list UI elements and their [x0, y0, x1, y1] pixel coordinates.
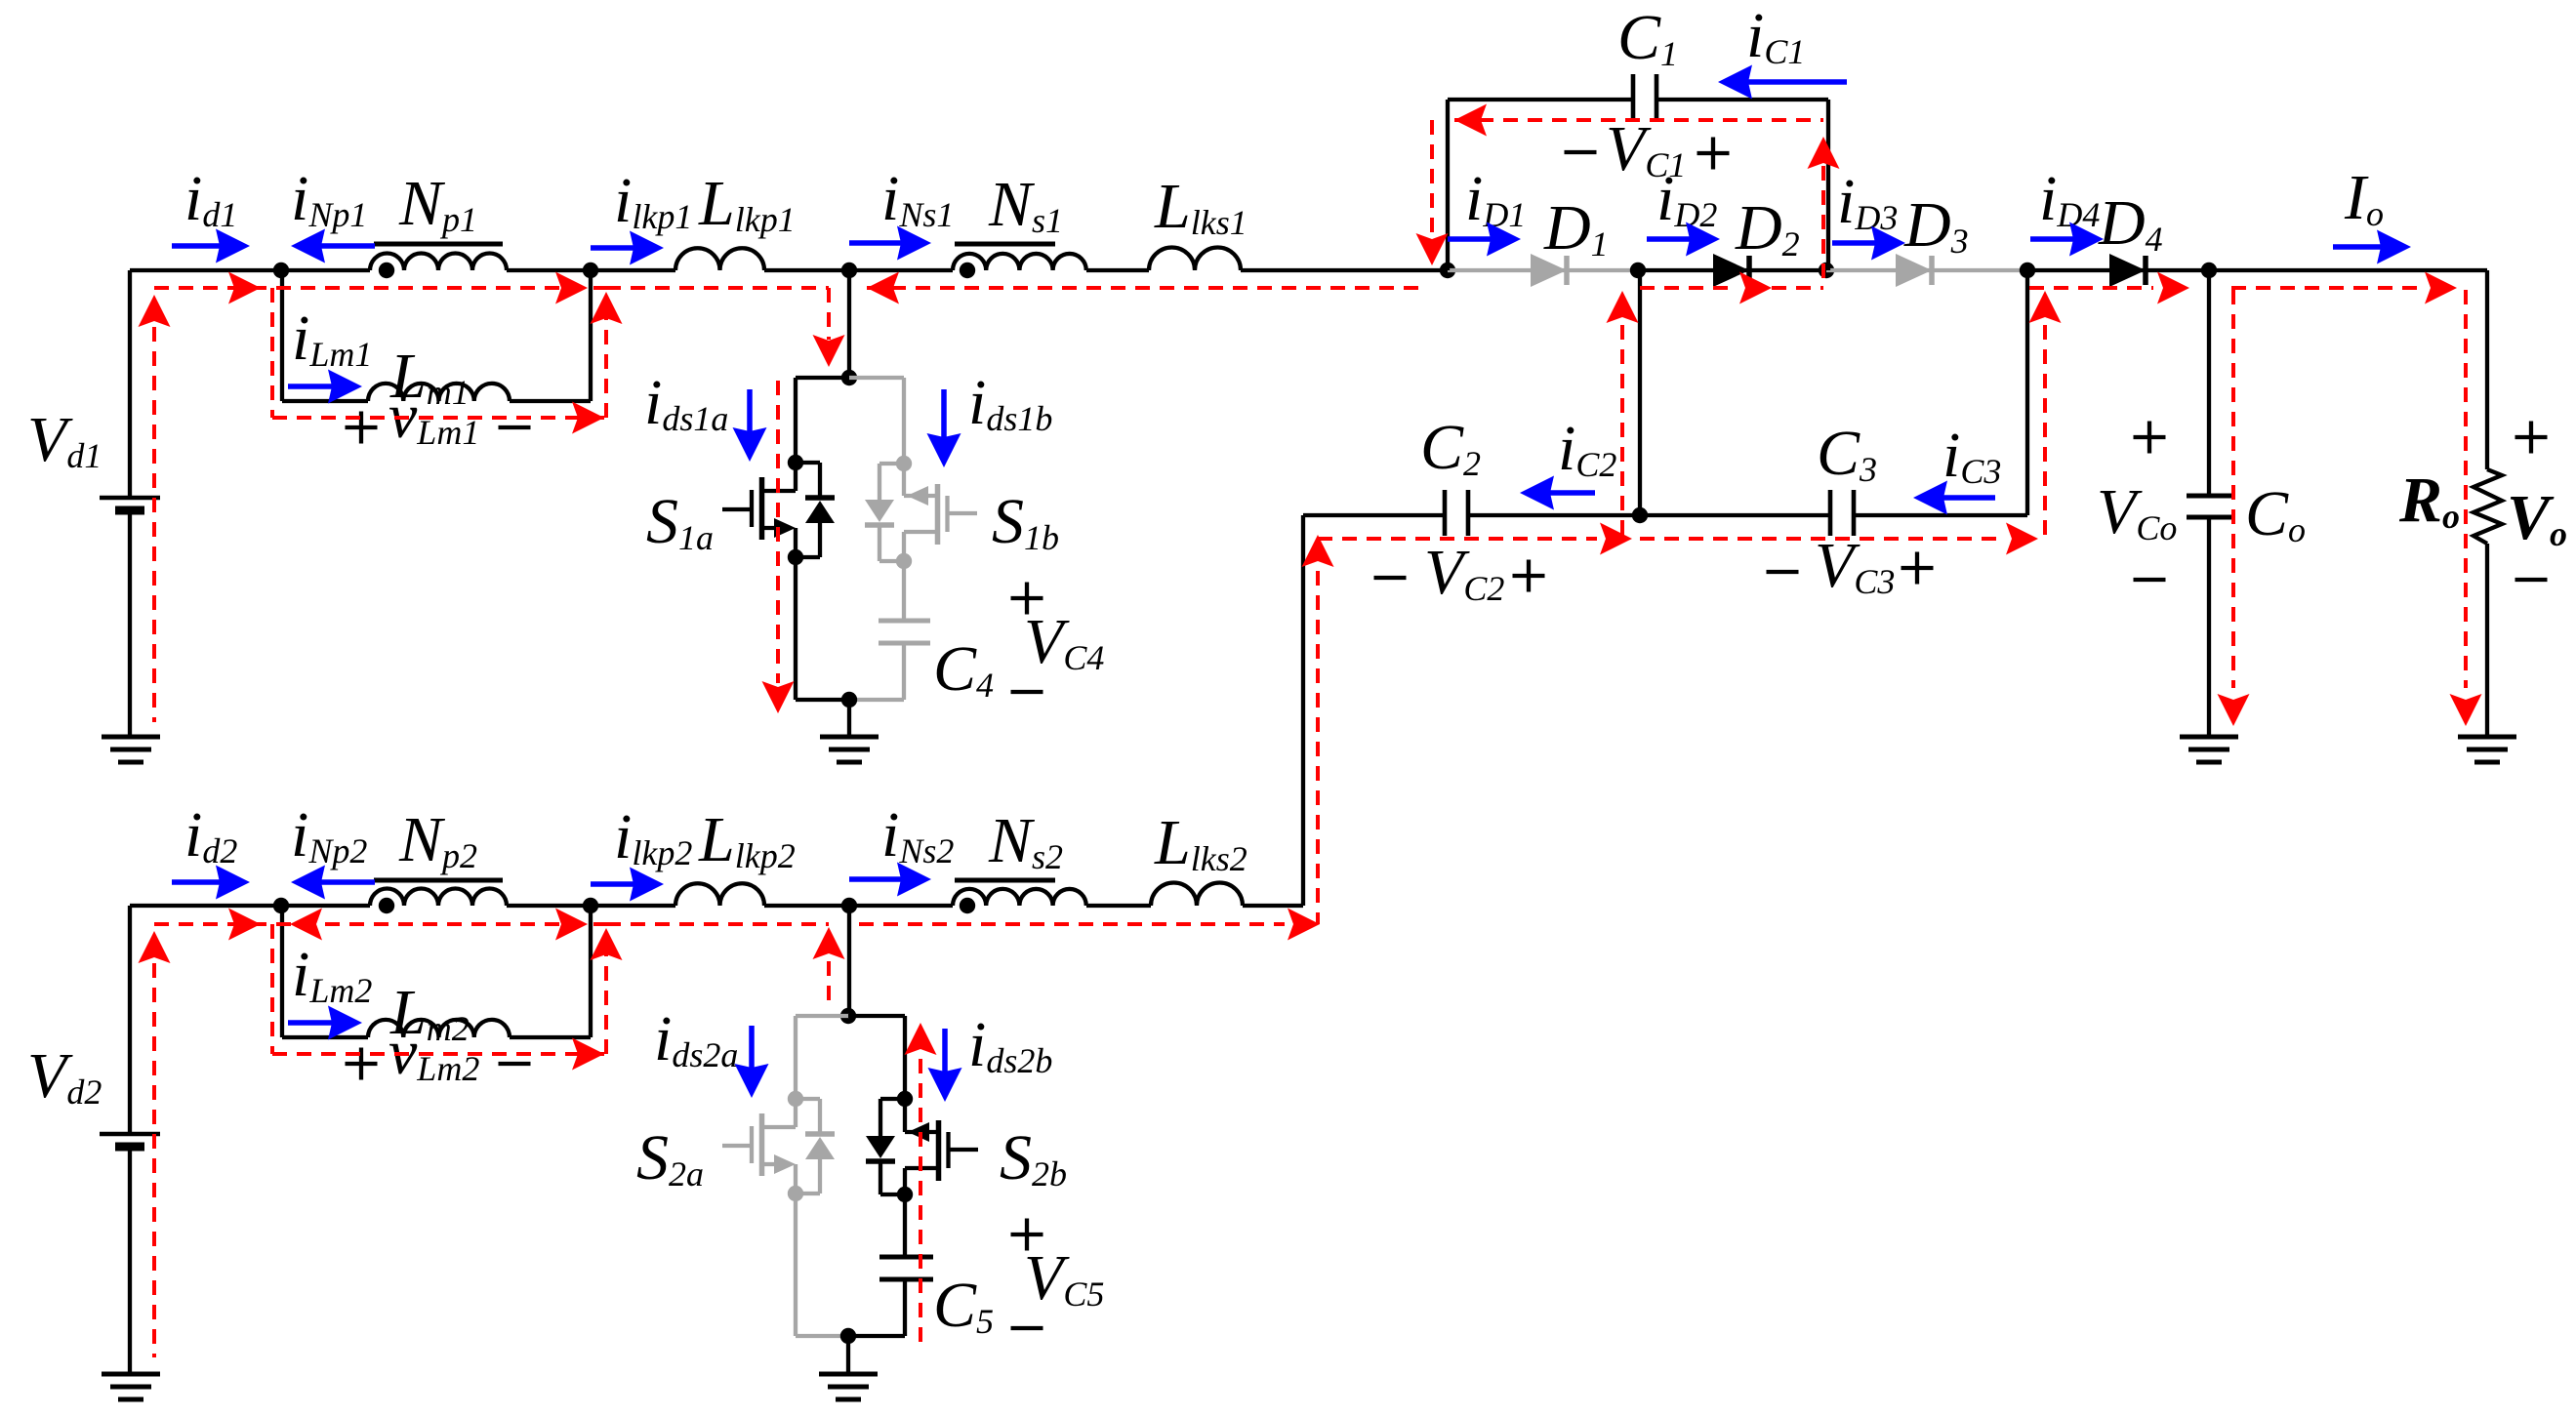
arrow ids1b: [927, 389, 961, 467]
label C2: [1420, 412, 1481, 483]
node C2 switch branch junction: [841, 898, 857, 913]
body diode S2a gray: [796, 1099, 835, 1193]
label -VC1+: [1565, 113, 1730, 184]
label Vo: [2507, 422, 2567, 581]
red path C1 top: [1454, 104, 1823, 137]
capacitor C2: [1445, 490, 1468, 536]
mosfet S1b gray: [904, 464, 977, 561]
label iD4: [2039, 163, 2100, 234]
arrow iC2: [1520, 476, 1595, 510]
capacitor Co branch: [2187, 270, 2231, 737]
red path C2 up: [1607, 291, 1639, 539]
wire to S2a drain gray: [796, 1016, 849, 1099]
red path Ro down: [2450, 290, 2482, 726]
wire node F to mid rail: [2025, 270, 2029, 515]
wire Ns2 to Llks2: [1086, 904, 1151, 908]
arrow iLm1: [288, 370, 362, 404]
node S1a source: [788, 549, 803, 565]
wire switch bottom gray: [849, 698, 904, 702]
wire node D to mid rail: [1638, 270, 1642, 515]
node S1b drain gray: [896, 456, 912, 471]
red path Co down: [2218, 290, 2250, 726]
red path D2 segment: [1640, 272, 1823, 304]
red path link vertical: [1302, 535, 1334, 924]
wire switch branch stem: [847, 270, 851, 378]
label +VC5: [1011, 1219, 1105, 1329]
voltage source Vd2: [100, 906, 160, 1374]
red path bottom rail left: [154, 909, 606, 941]
label -VC2+: [1374, 537, 1545, 608]
label D3: [1903, 189, 1969, 261]
ground switch2: [819, 1374, 878, 1399]
node switch bottom: [841, 692, 857, 708]
node S1a drain: [788, 455, 803, 470]
label ilkp2: [614, 801, 692, 872]
label id2: [184, 799, 237, 870]
wire gray D3 segment: [1826, 268, 2028, 272]
red path secondary return: [867, 272, 1425, 304]
transformer primary winding Np2: [370, 880, 507, 913]
red path output segment: [2231, 272, 2457, 304]
node input Vd1-Np1 junction: [273, 263, 289, 278]
arrow iNp2: [291, 866, 375, 900]
capacitor C1: [1633, 74, 1656, 122]
label ids1b: [968, 367, 1052, 438]
red path through S2b: [905, 1023, 937, 1347]
label Lm1: [389, 341, 470, 412]
mosfet S2b: [905, 1099, 978, 1194]
arrow ilkp1: [591, 231, 664, 265]
wire Llkp2 to Ns2: [764, 904, 953, 908]
label ids2a: [654, 1003, 738, 1074]
label iC3: [1942, 420, 2001, 491]
label +vLm2-: [346, 1017, 531, 1088]
arrow ids2a: [735, 1026, 769, 1098]
red path Vd1 up: [139, 295, 171, 722]
label +vLm1-: [346, 381, 531, 452]
arrow ilkp2: [591, 868, 664, 902]
red path S2b up to rail: [813, 927, 845, 1010]
transformer secondary winding Ns2: [953, 880, 1086, 913]
mosfet S1a: [722, 463, 796, 557]
red path mid rail left: [1318, 523, 1632, 555]
wire to S2b drain: [848, 1016, 905, 1099]
arrow ids1a: [733, 389, 767, 462]
label S2b: [1000, 1122, 1067, 1193]
body diode S1a: [796, 463, 835, 557]
leakage inductor Llkp2: [675, 883, 764, 906]
arrow iC3: [1913, 481, 1995, 515]
wire black D4 segment: [2028, 268, 2487, 272]
magnetizing inductor Lm2 loop: [282, 906, 591, 1037]
label iD1: [1465, 163, 1526, 234]
diode D4: [2109, 254, 2146, 287]
body diode S2b: [866, 1099, 905, 1194]
wire bottom rail left: [130, 904, 370, 908]
wire C1 loop: [1448, 100, 1828, 270]
diode D3: [1896, 254, 1932, 287]
capacitor C3: [1830, 490, 1854, 536]
node switch branch split: [841, 370, 857, 385]
label ilkp1: [614, 165, 692, 236]
label Llkp2: [698, 804, 796, 875]
wire Np1 to Llkp1: [507, 268, 675, 272]
label iNp2: [291, 799, 367, 870]
red path C1 left down: [1416, 120, 1449, 265]
arrow iD4: [2030, 223, 2104, 257]
label Ns1: [988, 169, 1063, 240]
label id1: [184, 163, 237, 234]
label Llks1: [1154, 171, 1247, 242]
label Vd2: [27, 1040, 102, 1112]
label -VC3+: [1767, 530, 1934, 601]
capacitor C4 gray: [879, 561, 930, 700]
node S1b source gray: [896, 553, 912, 569]
label VCo: [2097, 422, 2177, 581]
label iNs1: [881, 163, 954, 234]
node D2-C2 mid junction: [1632, 507, 1648, 523]
node S2b drain: [897, 1091, 913, 1107]
wire to ground sw1: [847, 700, 851, 737]
wire gray D1 segment: [1448, 268, 1638, 272]
arrow id1: [172, 229, 250, 263]
ground Vd2: [102, 1374, 160, 1399]
label C5: [933, 1270, 994, 1341]
label iD2: [1656, 163, 1717, 234]
node F D3-D4 junction: [2020, 263, 2035, 278]
label Ro: [2398, 465, 2460, 536]
node B2 junction: [583, 898, 598, 913]
mosfet S2a gray: [722, 1099, 796, 1193]
wire Np2 to Llkp2: [507, 904, 675, 908]
node C switch branch junction: [841, 263, 857, 278]
label iC2: [1558, 413, 1616, 484]
wire S1a source down: [796, 557, 849, 700]
red path mid segment 2: [606, 922, 829, 926]
label Vd1: [27, 404, 102, 475]
red path C1 right up: [1808, 137, 1840, 288]
label iLm2: [292, 939, 372, 1010]
wire top rail left segment: [130, 268, 370, 272]
node switch bottom 2: [840, 1328, 856, 1344]
wire black D2 segment: [1638, 268, 1826, 272]
label S2a: [636, 1122, 704, 1193]
node E D2-D3 junction: [1819, 263, 1834, 278]
diode D1: [1531, 254, 1567, 287]
arrow iNp1: [291, 229, 375, 263]
wire Llks1 to D1 node: [1241, 268, 1448, 272]
wire switch branch stem 2: [847, 906, 851, 1016]
label C3: [1817, 418, 1877, 489]
transformer primary winding Np1: [370, 244, 507, 278]
node switch branch split 2: [840, 1008, 856, 1024]
arrow iNs2: [849, 863, 931, 897]
wire Llks2 to link corner: [1243, 904, 1303, 908]
node S2a source gray: [788, 1186, 803, 1201]
label iD3: [1837, 166, 1898, 237]
label Lm2: [389, 977, 470, 1048]
label Co: [2245, 478, 2306, 549]
wire mid rail: [1303, 513, 2027, 517]
node D D1-D2 junction: [1630, 263, 1646, 278]
wire Ns1 to Llks1: [1086, 268, 1149, 272]
magnetizing inductor Lm1 loop: [282, 270, 591, 401]
node S2b source: [897, 1187, 913, 1202]
red path mid rail right: [1640, 523, 2038, 555]
red path Vd2 up: [139, 931, 171, 1357]
node B Np1-Lm1 right junction: [583, 263, 598, 278]
label ids1a: [644, 367, 728, 438]
red path secondary out: [859, 909, 1320, 941]
wire switch bottom 2: [848, 1334, 905, 1338]
node S2a drain gray: [788, 1091, 803, 1107]
label Ns2: [988, 805, 1063, 876]
red path D4 segment: [2029, 272, 2189, 304]
label Llkp1: [698, 168, 796, 239]
red path through S1a: [762, 381, 795, 713]
label Io: [2344, 162, 2384, 233]
body diode S1b gray: [865, 464, 904, 561]
wire long link vertical: [1301, 515, 1305, 906]
wire Ro to ground: [2485, 544, 2489, 737]
label D4: [2098, 187, 2163, 259]
label Np2: [398, 804, 477, 875]
voltage source Vd1: [100, 270, 160, 737]
wire output right corner: [2485, 270, 2489, 469]
arrow iNs1: [849, 226, 931, 261]
ground Co: [2180, 737, 2238, 762]
wire to ground sw2: [846, 1336, 850, 1374]
ground Ro: [2458, 737, 2516, 762]
label Llks2: [1154, 807, 1247, 878]
label D1: [1543, 192, 1609, 263]
label Np1: [398, 168, 477, 239]
arrow iD3: [1832, 226, 1905, 261]
leakage inductor Llks2: [1151, 883, 1243, 907]
label C1: [1617, 2, 1678, 73]
node I C1-loop left / D1 anode: [1440, 263, 1455, 278]
node G output junction: [2201, 263, 2217, 278]
wire Llkp1 to Ns1: [764, 268, 953, 272]
red path to switch: [606, 288, 845, 367]
resistor Ro: [2474, 469, 2502, 544]
leakage inductor Llkp1: [675, 248, 764, 270]
label D2: [1735, 192, 1800, 263]
arrow iD1: [1448, 223, 1521, 257]
red path C3 up: [2029, 291, 2062, 539]
arrow iC1: [1718, 65, 1847, 100]
label iLm1: [292, 303, 372, 374]
arrow iD2: [1647, 223, 1720, 257]
leakage inductor Llks1: [1149, 247, 1241, 270]
capacitor C5: [879, 1194, 933, 1336]
label S1b: [992, 486, 1059, 557]
transformer secondary winding Ns1: [953, 244, 1086, 278]
red path Lm1 loop: [272, 288, 623, 434]
label iNp1: [291, 163, 367, 234]
arrow Io: [2333, 230, 2411, 264]
node A2 Vd2-Np2 junction: [273, 898, 289, 913]
arrow iLm2: [288, 1006, 362, 1040]
arrow id2: [172, 866, 250, 900]
label S1a: [646, 486, 714, 557]
wire to S1a drain: [796, 378, 849, 463]
arrow ids2b: [928, 1029, 962, 1102]
label ids2b: [968, 1009, 1052, 1080]
red path top rail left: [154, 272, 606, 304]
ground Vd1: [102, 737, 160, 762]
wire S2a source down gray: [796, 1193, 848, 1336]
label +VC4-: [1011, 583, 1105, 693]
ground switch1: [820, 737, 879, 762]
label iNs2: [881, 799, 954, 870]
label iC1: [1746, 0, 1805, 71]
red path Lm2 loop: [272, 924, 623, 1071]
wire to S1b drain gray: [849, 378, 904, 464]
label C4: [933, 633, 994, 705]
diode D2: [1713, 254, 1749, 287]
